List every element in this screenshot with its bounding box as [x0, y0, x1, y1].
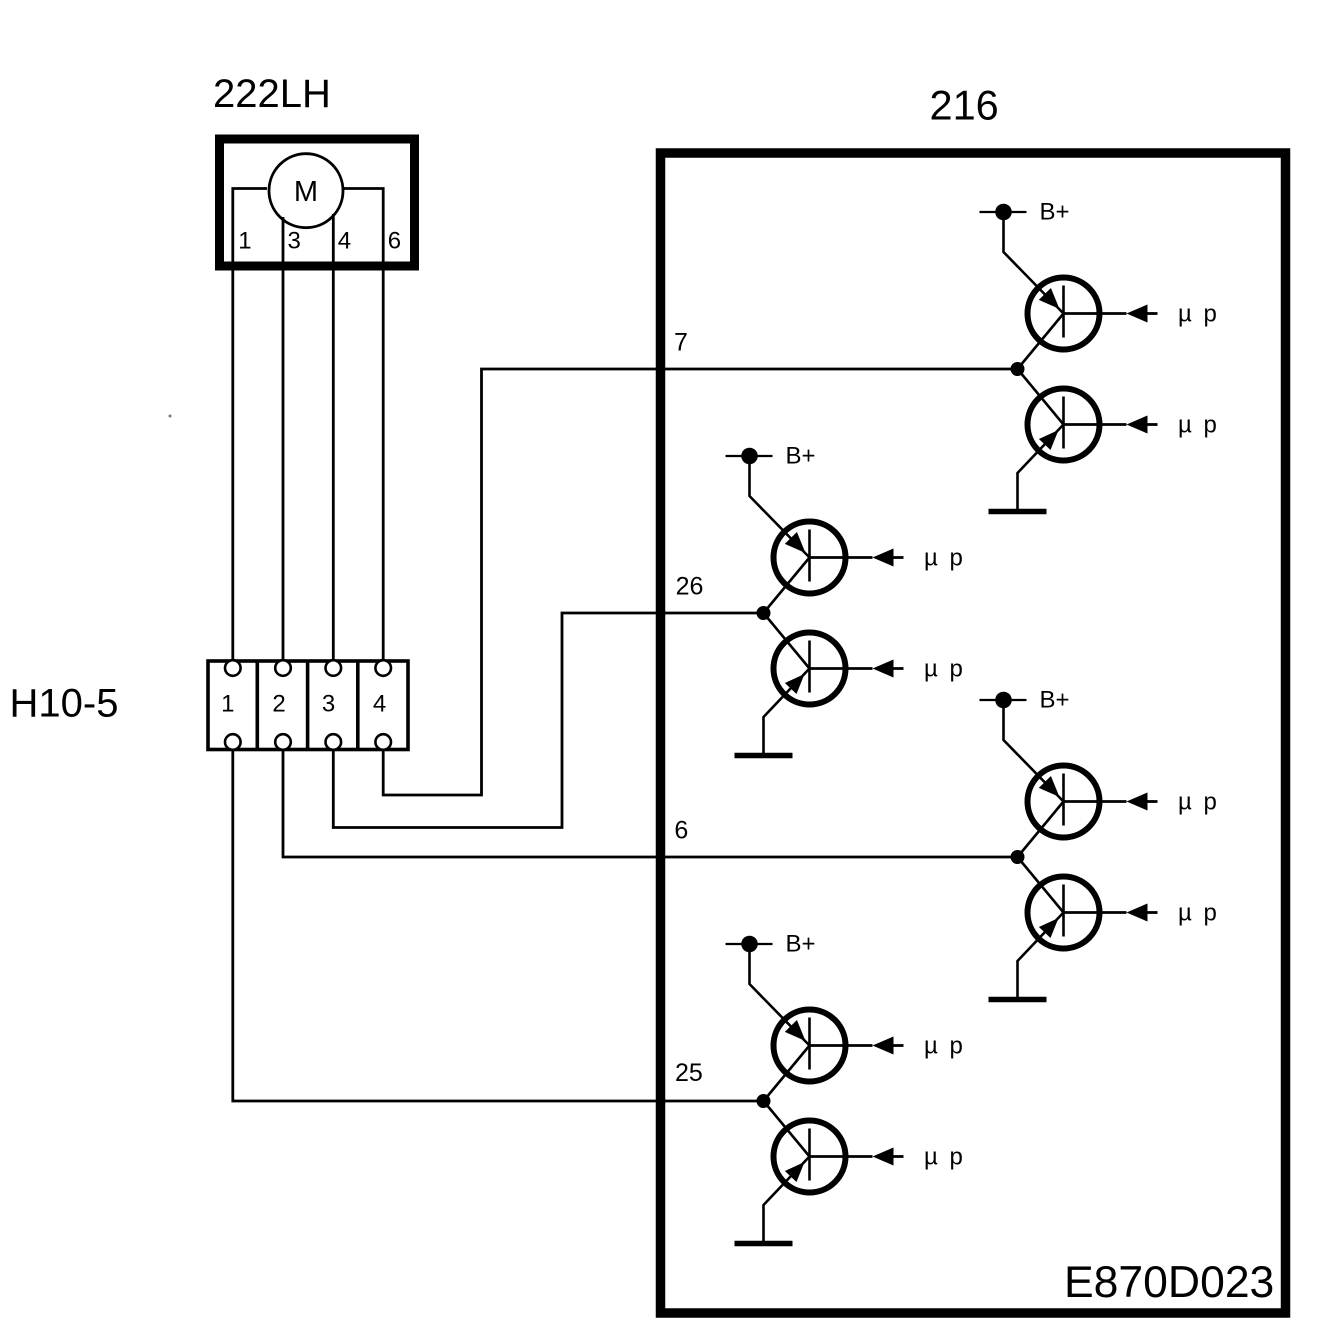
base lead of Q7 with arrow to µp	[810, 1037, 904, 1055]
wire Q8 emitter to ground	[764, 1157, 810, 1242]
wire motor pin 3 to H10-5 terminal 2	[282, 217, 285, 661]
motor M1	[269, 154, 343, 228]
svg-text:B+: B+	[786, 442, 816, 469]
node net 25 junction	[757, 1094, 771, 1108]
svg-text:M: M	[294, 176, 318, 208]
wire node net 26 to Q4 collector	[764, 613, 810, 669]
label µp (Q4)	[924, 656, 963, 683]
connector H10-5 body	[208, 661, 408, 750]
motor box 222LH	[220, 139, 415, 266]
wire motor pin 1 to H10-5 terminal 1	[233, 189, 267, 661]
transistor Q1 (upper, emitter to B+)	[1028, 278, 1100, 350]
base lead of Q6 with arrow to µp	[1064, 904, 1158, 922]
wire Q3 collector to node net 26	[764, 558, 810, 614]
transistor Q3 (upper, emitter to B+)	[774, 522, 846, 594]
svg-text:µ: µ	[924, 545, 938, 572]
wire H10-5 terminal 2 to net 6	[283, 750, 1018, 858]
svg-text:B+: B+	[1040, 686, 1070, 713]
svg-text:p: p	[1204, 412, 1217, 439]
svg-text:E870D023: E870D023	[1064, 1258, 1274, 1307]
label µp (Q3)	[924, 545, 963, 572]
transistor Q5 (upper, emitter to B+)	[1028, 766, 1100, 838]
transistor Q6 (lower, emitter to ground)	[1028, 877, 1100, 949]
svg-text:3: 3	[288, 228, 301, 255]
wire B+ to Q5 emitter	[1004, 700, 1064, 802]
label µp (Q1)	[1178, 301, 1217, 328]
wire H10-5 terminal 4 to net 7	[383, 369, 1017, 795]
svg-text:B+: B+	[1040, 198, 1070, 225]
ground (net 26)	[735, 753, 793, 759]
svg-text:µ: µ	[924, 1033, 938, 1060]
wire Q6 emitter to ground	[1018, 913, 1064, 998]
label µp (Q5)	[1178, 789, 1217, 816]
transistor Q2 (lower, emitter to ground)	[1028, 389, 1100, 461]
svg-text:p: p	[1204, 789, 1217, 816]
label µp (Q7)	[924, 1033, 963, 1060]
ground (net 7)	[989, 509, 1047, 515]
wire B+ to Q3 emitter	[750, 456, 810, 558]
wire node net 6 to Q6 collector	[1018, 857, 1064, 913]
base lead of Q2 with arrow to µp	[1064, 416, 1158, 434]
svg-text:µ: µ	[1178, 301, 1192, 328]
svg-text:216: 216	[930, 82, 999, 129]
svg-text:p: p	[1204, 900, 1217, 927]
svg-text:p: p	[1204, 301, 1217, 328]
svg-text:6: 6	[674, 817, 688, 845]
svg-text:p: p	[950, 545, 963, 572]
wire motor pin 4 to H10-5 terminal 3	[332, 214, 335, 661]
svg-text:7: 7	[674, 328, 688, 356]
wire Q5 collector to node net 6	[1018, 802, 1064, 858]
svg-text:p: p	[950, 1033, 963, 1060]
IC box 216	[661, 153, 1286, 1313]
svg-text:3: 3	[322, 690, 335, 717]
label µp (Q2)	[1178, 412, 1217, 439]
B+ terminal node (net 25)	[726, 936, 773, 953]
svg-text:µ: µ	[1178, 412, 1192, 439]
svg-text:2: 2	[272, 690, 285, 717]
speck artifact	[169, 415, 172, 418]
wire motor pin 6 to H10-5 terminal 4	[342, 189, 383, 661]
svg-text:p: p	[950, 1144, 963, 1171]
base lead of Q8 with arrow to µp	[810, 1148, 904, 1166]
base lead of Q5 with arrow to µp	[1064, 793, 1158, 811]
svg-text:25: 25	[675, 1059, 703, 1087]
B+ terminal node (net 26)	[726, 448, 773, 465]
wire node net 25 to Q8 collector	[764, 1101, 810, 1157]
node net 26 junction	[757, 606, 771, 620]
wire Q2 emitter to ground	[1018, 425, 1064, 510]
base lead of Q4 with arrow to µp	[810, 660, 904, 678]
base lead of Q3 with arrow to µp	[810, 549, 904, 567]
svg-text:µ: µ	[924, 1144, 938, 1171]
wire B+ to Q1 emitter	[1004, 212, 1064, 314]
svg-text:222LH: 222LH	[213, 72, 331, 116]
label µp (Q8)	[924, 1144, 963, 1171]
node net 7 junction	[1011, 362, 1025, 376]
svg-text:µ: µ	[924, 656, 938, 683]
ground (net 6)	[989, 997, 1047, 1003]
node net 6 junction	[1011, 850, 1025, 864]
wire Q4 emitter to ground	[764, 669, 810, 754]
svg-text:4: 4	[373, 690, 386, 717]
H10-5 terminal circles	[225, 660, 391, 750]
transistor Q8 (lower, emitter to ground)	[774, 1121, 846, 1193]
svg-text:µ: µ	[1178, 900, 1192, 927]
svg-text:1: 1	[238, 228, 251, 255]
svg-text:B+: B+	[786, 930, 816, 957]
wire node net 7 to Q2 collector	[1018, 369, 1064, 425]
transistor Q4 (lower, emitter to ground)	[774, 633, 846, 705]
svg-text:26: 26	[676, 573, 704, 601]
svg-text:4: 4	[338, 228, 351, 255]
wire H10-5 terminal 1 to net 25	[233, 750, 764, 1102]
B+ terminal node (net 7)	[980, 204, 1027, 221]
svg-text:µ: µ	[1178, 789, 1192, 816]
ground (net 25)	[735, 1241, 793, 1247]
svg-text:1: 1	[221, 690, 234, 717]
wire Q1 collector to node net 7	[1018, 314, 1064, 370]
wire Q7 collector to node net 25	[764, 1046, 810, 1102]
svg-text:H10-5: H10-5	[10, 682, 119, 726]
wire H10-5 terminal 3 to net 26	[333, 613, 763, 828]
wire B+ to Q7 emitter	[750, 944, 810, 1046]
B+ terminal node (net 6)	[980, 692, 1027, 709]
base lead of Q1 with arrow to µp	[1064, 305, 1158, 323]
svg-text:6: 6	[388, 228, 401, 255]
transistor Q7 (upper, emitter to B+)	[774, 1010, 846, 1082]
svg-text:p: p	[950, 656, 963, 683]
label µp (Q6)	[1178, 900, 1217, 927]
